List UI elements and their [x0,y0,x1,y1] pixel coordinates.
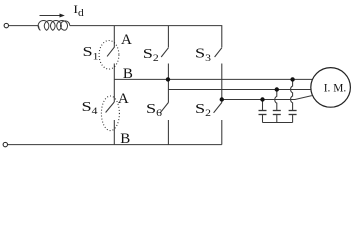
svg-text:A: A [118,91,129,107]
svg-text:S2: S2 [195,101,211,119]
svg-text:S6: S6 [146,101,162,119]
svg-text:Id: Id [73,2,84,19]
svg-text:S3: S3 [195,46,211,64]
svg-text:A: A [121,32,132,48]
svg-text:B: B [120,131,130,147]
svg-text:S2: S2 [143,46,159,64]
svg-text:S4: S4 [81,99,98,117]
svg-text:S1: S1 [82,44,98,62]
svg-text:B: B [123,66,133,82]
svg-text:I. M.: I. M. [324,83,347,95]
